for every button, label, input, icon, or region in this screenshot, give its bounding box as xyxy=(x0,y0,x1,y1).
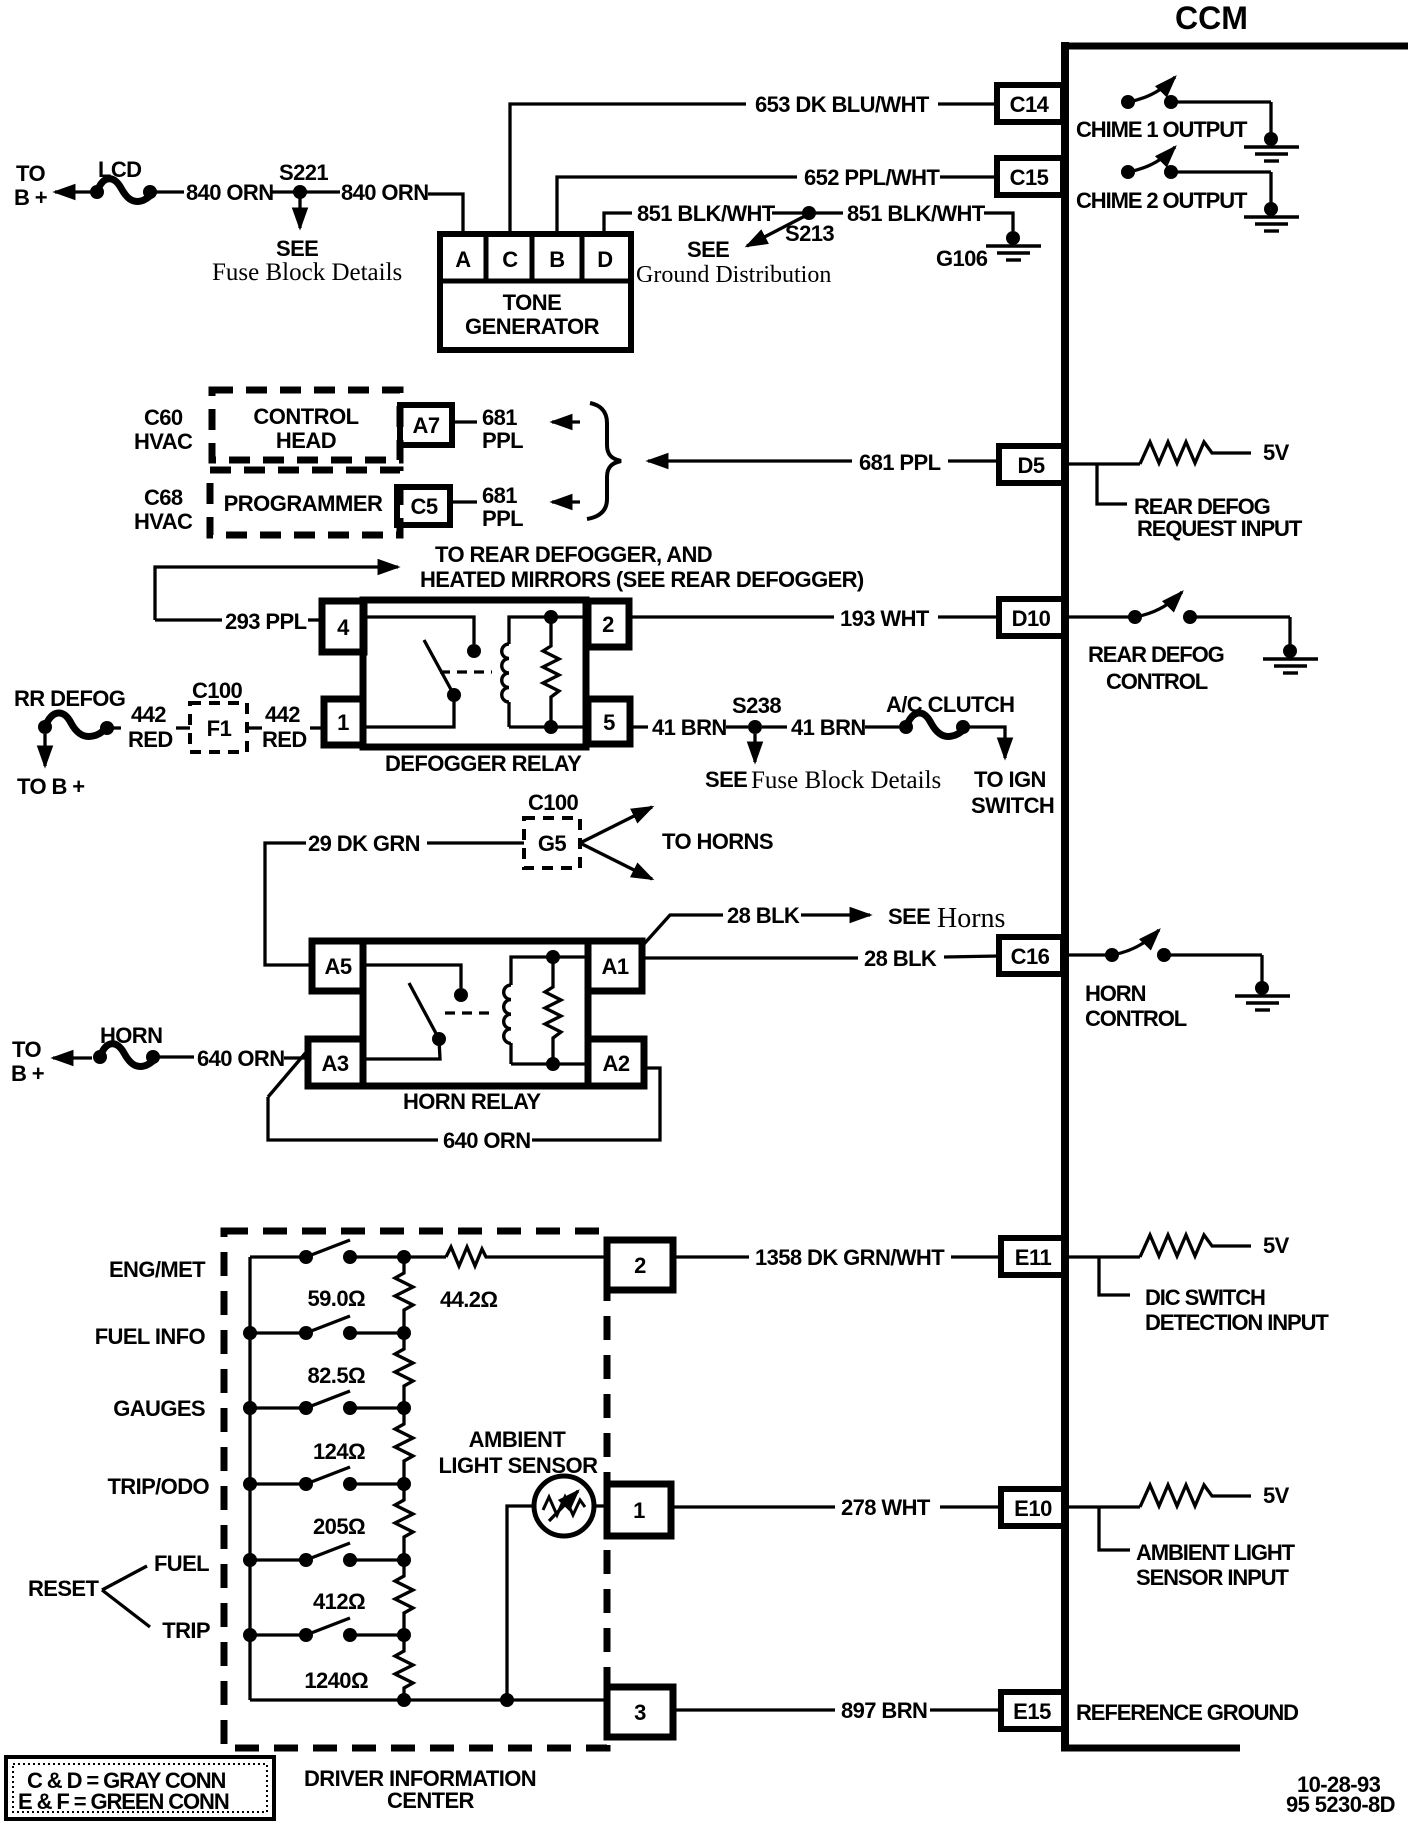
wire arrow 681 PPL (control head) xyxy=(552,420,580,423)
CCM top edge wire xyxy=(1061,43,1408,50)
ground (horn control) xyxy=(1235,981,1290,1010)
svg-text:Fuse Block Details: Fuse Block Details xyxy=(751,767,941,794)
svg-text:B +: B + xyxy=(14,185,47,210)
svg-text:C: C xyxy=(502,247,518,272)
svg-text:897 BRN: 897 BRN xyxy=(841,1698,927,1723)
resistor 205 ohm xyxy=(395,1484,413,1560)
switch FUEL INFO xyxy=(243,1316,411,1340)
resistor 124 ohm xyxy=(395,1408,413,1484)
resistor (D5 pull-up to 5V) xyxy=(1140,442,1251,464)
reset pointer lines xyxy=(102,1566,150,1627)
wire 897 BRN (terminal 3 to E15) xyxy=(673,1698,1001,1723)
switch chime 1 output xyxy=(1121,77,1271,133)
svg-text:C100: C100 xyxy=(528,790,579,815)
wire A7 to 681 PPL xyxy=(452,420,477,423)
svg-text:C14: C14 xyxy=(1010,92,1050,117)
connector C100 G5 (dashed) xyxy=(524,790,580,868)
resistor (relay shunt) xyxy=(543,617,559,727)
wire E10 to pull-up xyxy=(1069,1505,1140,1508)
horn relay actuation dashed link xyxy=(445,1011,495,1014)
svg-text:C16: C16 xyxy=(1011,944,1050,969)
svg-text:41 BRN: 41 BRN xyxy=(791,715,866,740)
svg-text:TO: TO xyxy=(16,161,45,186)
node row1 mid rail junction xyxy=(397,1250,411,1264)
fusible link A/C CLUTCH xyxy=(899,713,970,737)
connector A7 xyxy=(400,405,452,445)
svg-text:PPL: PPL xyxy=(482,506,523,531)
svg-text:4: 4 xyxy=(337,615,350,640)
svg-text:412Ω: 412Ω xyxy=(313,1589,365,1614)
DIC bottom rail xyxy=(250,1698,607,1701)
ground (chime 1) xyxy=(1244,132,1299,161)
svg-text:2: 2 xyxy=(634,1253,646,1278)
svg-text:640 ORN: 640 ORN xyxy=(443,1128,531,1153)
svg-text:205Ω: 205Ω xyxy=(313,1514,365,1539)
svg-text:TRIP/ODO: TRIP/ODO xyxy=(107,1474,209,1499)
wire C16 to switch xyxy=(1069,953,1110,956)
svg-text:CENTER: CENTER xyxy=(387,1788,475,1813)
switch FUEL (reset) xyxy=(243,1543,411,1567)
wire F1 to pin1 xyxy=(247,726,262,729)
svg-text:681: 681 xyxy=(482,483,517,508)
wire 840 ORN to tone generator A xyxy=(306,180,463,234)
wire arrow to fuse block xyxy=(298,198,301,228)
wire arrow to B+ xyxy=(55,190,92,193)
horn relay coil xyxy=(504,957,588,1064)
svg-text:RED: RED xyxy=(262,727,307,752)
resistor 412 ohm xyxy=(395,1560,413,1635)
svg-text:S238: S238 xyxy=(732,693,781,718)
svg-text:C15: C15 xyxy=(1010,165,1049,190)
ground (chime 2) xyxy=(1244,202,1299,231)
svg-text:A2: A2 xyxy=(602,1051,629,1076)
terminal 2 xyxy=(607,1240,673,1290)
svg-text:5V: 5V xyxy=(1263,1233,1290,1258)
svg-text:HEAD: HEAD xyxy=(276,428,336,453)
svg-text:C60: C60 xyxy=(144,405,183,430)
svg-text:2: 2 xyxy=(602,612,614,637)
svg-text:1358 DK GRN/WHT: 1358 DK GRN/WHT xyxy=(755,1245,945,1270)
svg-text:DEFOGGER RELAY: DEFOGGER RELAY xyxy=(385,751,582,776)
connector C16 xyxy=(999,937,1063,974)
svg-text:SEE: SEE xyxy=(705,767,747,792)
svg-text:A: A xyxy=(455,247,471,272)
svg-text:653 DK BLU/WHT: 653 DK BLU/WHT xyxy=(755,92,930,117)
svg-text:Fuse Block Details: Fuse Block Details xyxy=(212,259,402,286)
svg-text:5: 5 xyxy=(603,710,615,735)
DIC left rail xyxy=(248,1257,251,1700)
resistor 82.5 ohm xyxy=(395,1333,413,1408)
node coil top junction xyxy=(544,610,558,624)
svg-text:A1: A1 xyxy=(601,954,628,979)
node bottom sensor junction xyxy=(500,1693,514,1707)
svg-text:TO IGN: TO IGN xyxy=(974,767,1046,792)
wire 442 RED to relay pin1 xyxy=(310,726,324,729)
ground (rear defog control) xyxy=(1263,644,1318,673)
switch TRIP/ODO xyxy=(243,1467,411,1491)
fusible link RR DEFOG xyxy=(38,713,121,737)
svg-text:681: 681 xyxy=(482,405,517,430)
wire D10 to switch xyxy=(1069,615,1133,618)
svg-text:D10: D10 xyxy=(1012,606,1051,631)
wire 29 DK GRN (G5 to A5) xyxy=(265,831,524,965)
svg-text:Ground Distribution: Ground Distribution xyxy=(636,262,831,288)
svg-text:REFERENCE GROUND: REFERENCE GROUND xyxy=(1076,1700,1298,1725)
wire arrow 681 PPL (programmer) xyxy=(552,500,580,503)
svg-text:Horns: Horns xyxy=(937,903,1005,934)
node coil bottom junction xyxy=(544,720,558,734)
svg-text:TO B +: TO B + xyxy=(17,774,85,799)
svg-text:HORN: HORN xyxy=(100,1023,162,1048)
wire arrow to rear defogger xyxy=(155,567,398,620)
svg-text:HVAC: HVAC xyxy=(134,509,193,534)
svg-text:RR DEFOG: RR DEFOG xyxy=(14,686,125,711)
svg-text:LIGHT SENSOR: LIGHT SENSOR xyxy=(438,1453,598,1478)
wire 193 WHT (pin2 to D10) xyxy=(629,606,999,631)
wire 653 DK BLU/WHT (pin C to C14) xyxy=(510,92,997,234)
svg-text:278 WHT: 278 WHT xyxy=(841,1495,931,1520)
node horn relay fixed contact xyxy=(454,988,468,1002)
svg-text:SENSOR INPUT: SENSOR INPUT xyxy=(1136,1565,1289,1590)
wire pin4 to relay contact xyxy=(364,617,474,644)
svg-text:TONE: TONE xyxy=(503,290,562,315)
wire arrow to ign switch xyxy=(967,727,1005,758)
node horn coil bottom junction xyxy=(546,1057,560,1071)
svg-text:PROGRAMMER: PROGRAMMER xyxy=(224,491,383,516)
svg-text:95 5230-8D: 95 5230-8D xyxy=(1286,1792,1395,1817)
resistor (horn relay shunt) xyxy=(545,957,561,1064)
svg-text:G106: G106 xyxy=(936,246,988,271)
svg-text:840 ORN: 840 ORN xyxy=(186,180,274,205)
wire arrow to B+ (rr defog) xyxy=(43,734,46,766)
svg-text:124Ω: 124Ω xyxy=(313,1439,365,1464)
wire arrows to horns xyxy=(580,807,652,843)
svg-text:S221: S221 xyxy=(279,160,328,185)
svg-text:E10: E10 xyxy=(1014,1496,1052,1521)
svg-text:193 WHT: 193 WHT xyxy=(840,606,930,631)
svg-text:E & F = GREEN CONN: E & F = GREEN CONN xyxy=(18,1789,229,1814)
svg-text:442: 442 xyxy=(265,702,300,727)
svg-text:GENERATOR: GENERATOR xyxy=(465,314,600,339)
HVAC control head (dashed) xyxy=(212,390,400,460)
wire relay arm to pin1 xyxy=(363,695,454,727)
splice S221 xyxy=(293,185,307,199)
svg-text:HVAC: HVAC xyxy=(134,429,193,454)
wire 442 RED to F1 xyxy=(176,726,190,729)
resistor (E11 pull-up to 5V) xyxy=(1140,1235,1251,1257)
svg-text:LCD: LCD xyxy=(98,157,141,182)
svg-text:PPL: PPL xyxy=(482,428,523,453)
connector C100 F1 (dashed) xyxy=(190,678,247,752)
svg-text:CCM: CCM xyxy=(1175,0,1248,36)
node bottom mid junction xyxy=(397,1693,411,1707)
connector E15 xyxy=(1001,1692,1064,1729)
svg-text:E15: E15 xyxy=(1013,1699,1051,1724)
svg-text:A/C CLUTCH: A/C CLUTCH xyxy=(886,692,1014,717)
wire 640 ORN (horn feed to A3) xyxy=(197,1046,308,1071)
wire 293 PPL xyxy=(155,609,322,634)
resistor 1240 ohm xyxy=(395,1635,413,1700)
fusible link HORN xyxy=(93,1044,194,1067)
svg-text:D5: D5 xyxy=(1017,453,1044,478)
wire 28 BLK (A1 to C16) xyxy=(644,946,999,971)
node relay fixed contact xyxy=(467,644,481,658)
switch TRIP (reset) xyxy=(243,1618,411,1642)
switch horn control xyxy=(1105,930,1262,982)
wire sensor to pin 1 xyxy=(594,1504,607,1507)
svg-text:F1: F1 xyxy=(207,716,232,741)
wire 41 BRN (S238 to A/C clutch) xyxy=(762,715,899,740)
svg-text:FUEL INFO: FUEL INFO xyxy=(95,1324,206,1349)
brace joining 681 PPL pair xyxy=(587,403,621,519)
relay switch arm xyxy=(424,640,461,702)
svg-text:1: 1 xyxy=(337,710,349,735)
svg-text:851 BLK/WHT: 851 BLK/WHT xyxy=(637,201,776,226)
wire 640 ORN loop (A3 to A2) xyxy=(268,1050,660,1153)
svg-text:TO REAR DEFOGGER, AND: TO REAR DEFOGGER, AND xyxy=(435,542,712,567)
svg-text:442: 442 xyxy=(131,702,166,727)
tone generator xyxy=(440,234,631,350)
wire A5 to relay contact xyxy=(363,965,461,988)
svg-text:SEE: SEE xyxy=(276,236,318,261)
svg-text:GAUGES: GAUGES xyxy=(113,1396,205,1421)
defogger relay xyxy=(322,600,630,747)
svg-text:1: 1 xyxy=(633,1498,645,1523)
svg-text:44.2Ω: 44.2Ω xyxy=(440,1287,497,1312)
switch chime 2 output xyxy=(1121,147,1271,203)
connector D5 xyxy=(999,446,1064,483)
wire C5 to 681 PPL xyxy=(450,500,477,503)
svg-text:CHIME 1 OUTPUT: CHIME 1 OUTPUT xyxy=(1076,117,1248,142)
wire arrow to B+ (horn) xyxy=(53,1056,92,1059)
svg-text:ENG/MET: ENG/MET xyxy=(109,1257,206,1282)
relay coil xyxy=(502,617,588,727)
wire ambient light sensor input branch xyxy=(1099,1507,1130,1550)
svg-text:E11: E11 xyxy=(1015,1245,1052,1270)
switch ENG/MET xyxy=(250,1240,446,1264)
svg-text:TO: TO xyxy=(12,1037,41,1062)
connector D10 xyxy=(999,599,1064,636)
wire 278 WHT (terminal 1 to E10) xyxy=(671,1495,1001,1520)
driver information center housing (dashed) xyxy=(224,1231,607,1748)
svg-text:TRIP: TRIP xyxy=(162,1618,210,1643)
svg-text:3: 3 xyxy=(634,1700,646,1725)
svg-text:AMBIENT: AMBIENT xyxy=(469,1427,567,1452)
fusible link LCD xyxy=(90,179,184,202)
wire 681 PPL from D5 xyxy=(648,450,999,475)
svg-text:DETECTION INPUT: DETECTION INPUT xyxy=(1145,1310,1329,1335)
wire sensor to bottom rail xyxy=(507,1506,534,1700)
connector E10 xyxy=(1001,1489,1066,1526)
svg-text:C5: C5 xyxy=(410,494,437,519)
svg-text:CONTROL: CONTROL xyxy=(1106,669,1208,694)
svg-text:SEE: SEE xyxy=(687,237,729,262)
svg-text:B: B xyxy=(549,247,564,272)
svg-text:851 BLK/WHT: 851 BLK/WHT xyxy=(847,201,986,226)
svg-text:293 PPL: 293 PPL xyxy=(225,609,307,634)
terminal 1 xyxy=(607,1484,671,1536)
svg-text:CHIME 2 OUTPUT: CHIME 2 OUTPUT xyxy=(1076,188,1248,213)
svg-text:DIC SWITCH: DIC SWITCH xyxy=(1145,1285,1265,1310)
svg-text:AMBIENT LIGHT: AMBIENT LIGHT xyxy=(1136,1540,1296,1565)
wire arrow to ground distribution xyxy=(747,216,805,246)
svg-text:A7: A7 xyxy=(412,413,439,438)
wire 1358 DK GRN/WHT (terminal 2 to E11) xyxy=(673,1245,1001,1270)
svg-text:652 PPL/WHT: 652 PPL/WHT xyxy=(804,165,940,190)
legend connector colors xyxy=(6,1757,274,1819)
svg-text:640 ORN: 640 ORN xyxy=(197,1046,285,1071)
svg-text:29 DK GRN: 29 DK GRN xyxy=(308,831,420,856)
ground G106 xyxy=(986,231,1041,260)
svg-text:82.5Ω: 82.5Ω xyxy=(308,1363,365,1388)
connector C5 xyxy=(397,487,450,525)
splice S238 xyxy=(748,720,762,734)
svg-text:HORN: HORN xyxy=(1085,981,1146,1006)
horn relay xyxy=(308,941,644,1086)
ambient light sensor xyxy=(534,1476,594,1536)
svg-text:D: D xyxy=(597,247,612,272)
svg-text:HORN RELAY: HORN RELAY xyxy=(403,1089,541,1114)
node horn coil top junction xyxy=(546,950,560,964)
connector E11 xyxy=(1001,1238,1066,1275)
svg-text:5V: 5V xyxy=(1263,1483,1290,1508)
wire 41 BRN (pin5 to S238) xyxy=(630,715,748,740)
svg-text:HEATED MIRRORS (SEE REAR DEFOG: HEATED MIRRORS (SEE REAR DEFOGGER) xyxy=(420,567,864,592)
svg-text:A5: A5 xyxy=(324,954,351,979)
svg-text:FUEL: FUEL xyxy=(154,1551,209,1576)
svg-text:CONTROL: CONTROL xyxy=(1085,1006,1187,1031)
HVAC programmer (dashed) xyxy=(210,470,400,535)
svg-text:TO HORNS: TO HORNS xyxy=(662,829,773,854)
svg-text:840 ORN: 840 ORN xyxy=(341,180,429,205)
svg-text:C100: C100 xyxy=(192,678,243,703)
wire D5 to pull-up xyxy=(1069,462,1140,465)
svg-text:681 PPL: 681 PPL xyxy=(859,450,941,475)
wire rear defog request branch xyxy=(1097,464,1127,504)
svg-text:REAR DEFOG: REAR DEFOG xyxy=(1088,642,1224,667)
svg-text:B +: B + xyxy=(11,1061,44,1086)
svg-text:RESET: RESET xyxy=(28,1576,100,1601)
wire DIC switch detection branch xyxy=(1099,1257,1130,1295)
wire 840 ORN to S221 xyxy=(270,190,300,193)
wire relay arm to A3 xyxy=(363,1039,440,1059)
relay actuation dashed link xyxy=(440,670,492,673)
connector C14 xyxy=(997,85,1063,122)
svg-text:RED: RED xyxy=(128,727,173,752)
horn relay switch arm xyxy=(409,983,446,1046)
svg-text:28 BLK: 28 BLK xyxy=(864,946,937,971)
svg-text:41 BRN: 41 BRN xyxy=(652,715,727,740)
svg-text:CONTROL: CONTROL xyxy=(253,404,358,429)
svg-text:C68: C68 xyxy=(144,485,183,510)
connector C15 xyxy=(997,158,1063,195)
svg-text:SEE: SEE xyxy=(888,904,930,929)
svg-text:59.0Ω: 59.0Ω xyxy=(308,1286,365,1311)
resistor (E10 pull-up to 5V) xyxy=(1140,1485,1251,1507)
switch rear defog control xyxy=(1128,592,1290,645)
CCM bottom edge wire xyxy=(1061,1745,1240,1752)
switch GAUGES xyxy=(243,1391,411,1415)
resistor 44.2 ohm xyxy=(446,1247,607,1266)
wire 652 PPL/WHT (pin B to C15) xyxy=(557,165,997,234)
svg-text:SWITCH: SWITCH xyxy=(971,793,1054,818)
svg-text:1240Ω: 1240Ω xyxy=(304,1668,368,1693)
svg-text:5V: 5V xyxy=(1263,440,1290,465)
wire arrow to fuse block (S238) xyxy=(753,734,756,762)
wire 851 BLK/WHT (pin D to G106) xyxy=(604,201,1013,234)
svg-text:S213: S213 xyxy=(785,221,834,246)
wire E11 to pull-up xyxy=(1069,1255,1140,1258)
svg-text:REQUEST INPUT: REQUEST INPUT xyxy=(1137,516,1303,541)
terminal 3 xyxy=(607,1687,673,1737)
resistor 59.0 ohm xyxy=(395,1257,413,1333)
svg-text:G5: G5 xyxy=(538,831,567,856)
CCM left edge bus xyxy=(1061,42,1069,1748)
wire 28 BLK to horns xyxy=(644,903,1005,944)
svg-text:28 BLK: 28 BLK xyxy=(727,903,800,928)
svg-text:A3: A3 xyxy=(321,1051,348,1076)
